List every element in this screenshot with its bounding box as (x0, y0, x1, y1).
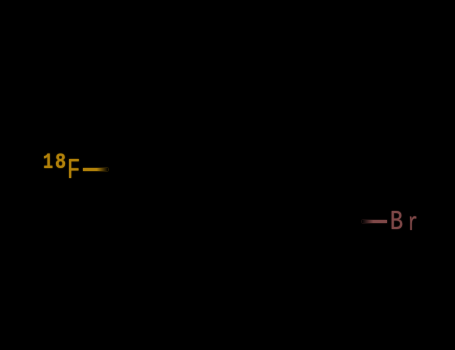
isotope superscript digit 8 (55, 151, 66, 174)
ring bond C3-C4 (214, 124, 240, 169)
atom label F (67, 157, 80, 186)
ring bond C5-C6 (160, 213, 214, 215)
chain bond C4-C7 (240, 169, 287, 196)
atom label Br: B (390, 209, 403, 236)
ring bond C6-C1 (134, 169, 160, 214)
ring bond C1-C2 (134, 124, 160, 169)
chain bond C7-C8 (287, 196, 339, 221)
bond C8-Br carbon half (339, 220, 364, 222)
bond Br half (dark red, fades toward carbon) (362, 220, 387, 223)
atom label Br: r (408, 210, 418, 236)
ring bond C4-C5 (214, 169, 240, 214)
bond C1-F carbon half (109, 168, 134, 170)
bond F half (orange, fades toward carbon) (83, 168, 108, 171)
ring bond C2-C3 (160, 123, 214, 125)
isotope superscript digit 1 (43, 151, 53, 174)
